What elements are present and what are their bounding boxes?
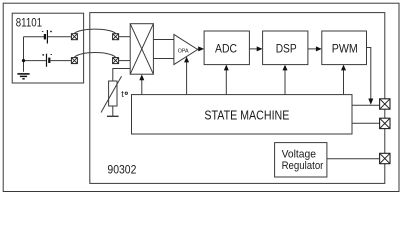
- wire mux out 2: [153, 58, 174, 60]
- svg-text:PWM: PWM: [332, 42, 358, 56]
- wire battery B2 left: [24, 60, 47, 62]
- wire arc hop 1: [74, 29, 115, 33]
- arrow SM to DSP: [283, 65, 288, 95]
- terminal main in 2: [113, 58, 119, 64]
- op-amp OPA: [174, 34, 198, 64]
- wire mux out 1: [153, 39, 174, 41]
- wire battery B2 right: [50, 60, 71, 62]
- battery B2: [42, 54, 52, 67]
- wire arc hop 2: [74, 53, 115, 58]
- svg-text:81101: 81101: [16, 17, 42, 29]
- arrow SM to MUX: [139, 74, 144, 94]
- wire terminal1 to mux: [119, 36, 131, 38]
- terminal out 1: [380, 99, 390, 109]
- svg-text:Regulator: Regulator: [282, 160, 324, 172]
- wire SM to terminal out 1: [352, 104, 380, 106]
- svg-text:STATE MACHINE: STATE MACHINE: [204, 108, 289, 122]
- svg-text:ADC: ADC: [215, 42, 237, 56]
- battery B1: [42, 30, 52, 44]
- block Voltage Regulator: [275, 143, 327, 177]
- outer border frame: [3, 3, 399, 191]
- block PWM: [322, 31, 367, 65]
- wire battery B1 left: [24, 36, 45, 38]
- wire battery B1 right: [48, 36, 71, 38]
- junction dot: [22, 59, 25, 62]
- battery box 81101: [12, 13, 83, 83]
- wire Voltage Regulator to terminal out 3: [327, 158, 380, 160]
- wire battery left vertical: [23, 37, 25, 72]
- arrow SM to OPA: [184, 57, 189, 95]
- wire SM to terminal out 2: [352, 122, 380, 124]
- main box 90302: [90, 13, 385, 184]
- wire PWM output down with arrow: [367, 48, 374, 105]
- temperature sensor t: [101, 69, 130, 117]
- terminal battery out 2: [71, 58, 77, 64]
- wire DSP to PWM with arrow: [308, 46, 322, 51]
- block DSP: [263, 31, 308, 65]
- terminal out 2: [380, 118, 390, 128]
- terminal main in 1: [113, 34, 119, 40]
- terminal out 3: [380, 153, 390, 163]
- block ADC: [204, 31, 249, 65]
- arrow SM to PWM: [341, 65, 346, 95]
- wire OPA to ADC with arrow: [198, 46, 205, 51]
- svg-text:Voltage: Voltage: [282, 149, 316, 161]
- ground: [17, 74, 29, 79]
- arrow SM to ADC: [224, 65, 229, 95]
- multiplexer MUX: [130, 24, 153, 74]
- svg-text:90302: 90302: [107, 162, 136, 176]
- block STATE MACHINE: [132, 95, 353, 134]
- svg-text:DSP: DSP: [276, 42, 297, 56]
- terminal battery out 1: [71, 34, 77, 40]
- wire ADC to DSP with arrow: [249, 46, 262, 51]
- wire terminal2 to mux: [119, 60, 131, 62]
- svg-text:OPA: OPA: [178, 48, 189, 54]
